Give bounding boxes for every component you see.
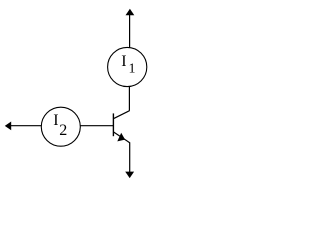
terminal arrow left bbox=[5, 122, 42, 131]
svg-text:I: I bbox=[121, 53, 126, 70]
terminal arrow top (up) bbox=[126, 9, 135, 48]
wire base bbox=[80, 125, 113, 127]
wire emitter vertical bbox=[129, 142, 131, 172]
label I2 bbox=[53, 112, 67, 139]
wire collector diagonal bbox=[113, 111, 129, 119]
current source I1 bbox=[108, 47, 147, 86]
svg-text:1: 1 bbox=[129, 61, 136, 76]
terminal arrow bottom (down) bbox=[125, 172, 134, 179]
transistor Q1 emitter arrow bbox=[117, 133, 125, 142]
label I1 bbox=[121, 53, 135, 76]
svg-text:I: I bbox=[53, 112, 58, 129]
svg-text:2: 2 bbox=[59, 122, 67, 139]
transistor Q1 emitter diagonal bbox=[113, 132, 129, 143]
current source I2 bbox=[41, 107, 80, 146]
wire collector vertical bbox=[128, 87, 130, 111]
transistor Q1 base bar bbox=[112, 113, 114, 136]
